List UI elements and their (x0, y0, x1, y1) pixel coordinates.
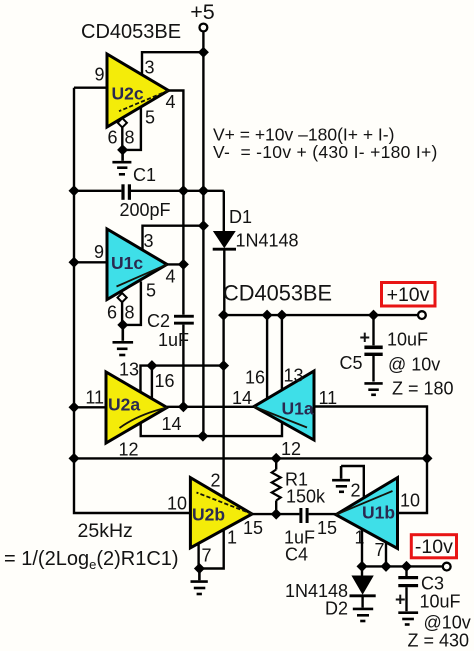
wire x223 rail down to U2b pin2 (222, 315, 224, 497)
junction D1 +10v rail (218, 310, 229, 321)
svg-text:25kHz: 25kHz (78, 520, 133, 542)
svg-text:U1b: U1b (362, 503, 395, 523)
U2c pin labels (94, 58, 175, 148)
svg-text:+: + (395, 590, 406, 610)
svg-text:12: 12 (281, 439, 301, 459)
svg-text:14: 14 (162, 414, 182, 434)
junction at +5 node (198, 47, 209, 58)
wire left rail (74, 88, 190, 513)
junction y458 x427 (422, 453, 433, 464)
ground flag U1b pin2 (332, 466, 350, 492)
svg-text:+5: +5 (190, 0, 215, 24)
svg-text:14: 14 (232, 388, 252, 408)
terminal circle +10v (418, 311, 426, 319)
wire +5 rail down to pin12 wire (202, 52, 204, 436)
svg-text:U2a: U2a (108, 395, 140, 415)
ground below C3 (398, 613, 418, 625)
wire x427 down to U1b pin10 (398, 458, 428, 513)
svg-text:7: 7 (202, 546, 212, 566)
junction pins 5-6-8 U1c (117, 319, 128, 330)
svg-text:CD4053BE: CD4053BE (223, 281, 332, 306)
junction pins 5-6-8 U2c (117, 144, 128, 155)
wire U2c pin5 to ground node (123, 107, 141, 150)
wire node 14 U2a to U1a (167, 406, 254, 408)
analog switch U2a (106, 372, 167, 443)
wire -10v rail (362, 565, 443, 567)
svg-text:D1: D1 (229, 207, 252, 227)
wire U2c pin6 pin8 down (121, 127, 123, 149)
svg-text:1: 1 (227, 528, 237, 548)
junction y458 left rail (69, 453, 80, 464)
svg-text:V- = -10v + (430 I- +180 I+): V- = -10v + (430 I- +180 I+) (213, 142, 438, 162)
svg-text:10uF: 10uF (387, 330, 428, 350)
wire U1a pin16 to +10v rail (266, 315, 268, 399)
svg-text:5: 5 (145, 108, 155, 128)
analog switch U1b (336, 478, 398, 549)
U1a pin labels (232, 366, 337, 460)
junction C1 x183 rail (178, 185, 189, 196)
capacitor C1 (74, 165, 224, 220)
svg-text:11: 11 (319, 388, 338, 408)
svg-text:7: 7 (375, 540, 385, 560)
svg-text:9: 9 (94, 65, 104, 85)
wire U2a pin16 stub (151, 366, 153, 399)
wire U1a pin13 to +10v rail (281, 315, 283, 390)
switch break diamond U2c (118, 118, 127, 127)
wire U2c output down (169, 91, 184, 315)
svg-text:15: 15 (317, 518, 337, 538)
junction R1 bottom (271, 509, 282, 520)
svg-text:CD4053BE: CD4053BE (81, 21, 181, 43)
equations V+ V- (213, 125, 438, 163)
svg-text:12: 12 (119, 440, 139, 460)
svg-text:+10v: +10v (387, 284, 430, 306)
junction U1c pin9 left rail (69, 257, 80, 268)
U1b pin labels (317, 481, 420, 561)
wire U1b pin2 to ground flag (341, 466, 364, 498)
wire U1c pin5 to ground node (123, 281, 141, 325)
svg-text:11: 11 (85, 388, 104, 408)
ground below U2c (112, 150, 131, 174)
capacitor C3 (395, 566, 471, 650)
wire U2a pin13 (141, 366, 224, 393)
junction R1 top (271, 453, 282, 464)
svg-text:13: 13 (119, 360, 139, 380)
svg-text:C5: C5 (340, 353, 363, 373)
svg-text:U2c: U2c (112, 84, 144, 104)
svg-text:Z = 430: Z = 430 (408, 631, 470, 651)
capacitor C2 (147, 311, 194, 407)
wire U1b pin7 stub (385, 543, 387, 567)
junction pin13 rail (276, 310, 287, 321)
U2b pin labels (167, 471, 263, 566)
U1c pin labels (94, 231, 176, 323)
svg-text:3: 3 (144, 231, 154, 251)
wire +10v rail (224, 314, 418, 316)
node +10v output terminal box (382, 283, 436, 307)
junction C1 x203 rail (198, 185, 209, 196)
wire U1c pin6 pin8 down (121, 302, 123, 325)
wire U2a pin12 to U1a pin12 (141, 422, 282, 436)
svg-text:+: + (360, 328, 371, 348)
svg-text:3: 3 (145, 58, 155, 78)
svg-text:Z = 180: Z = 180 (392, 379, 454, 399)
diode D2 1N4148 (285, 576, 376, 619)
wire U1b pin1 down through -10v rail (361, 529, 363, 576)
ground below U1c (113, 325, 134, 355)
svg-text:1N4148: 1N4148 (236, 231, 299, 251)
resistor R1 150k (272, 458, 326, 514)
svg-text:C3: C3 (421, 574, 444, 594)
svg-text:8: 8 (125, 303, 135, 323)
svg-text:C1: C1 (133, 165, 156, 185)
svg-text:2: 2 (351, 481, 361, 501)
svg-text:U2b: U2b (192, 505, 225, 525)
svg-text:10: 10 (400, 491, 420, 511)
analog switch U1c (107, 229, 167, 300)
svg-text:4: 4 (166, 92, 176, 112)
svg-text:2: 2 (211, 471, 221, 491)
switch break diamond U1c (118, 293, 127, 302)
svg-text:150k: 150k (286, 487, 326, 507)
svg-text:13: 13 (284, 366, 304, 386)
wire U2a pin11 (74, 406, 106, 408)
svg-text:200pF: 200pF (120, 200, 171, 220)
svg-text:9: 9 (94, 242, 104, 262)
svg-text:4: 4 (166, 267, 176, 287)
junction pin3 wire x203 rail (198, 220, 209, 231)
node +5 supply terminal (190, 0, 215, 52)
junction pin12 wire x203 rail (197, 431, 208, 442)
svg-text:15: 15 (243, 518, 263, 538)
svg-text:-10v: -10v (415, 536, 453, 558)
svg-text:16: 16 (155, 371, 175, 391)
svg-text:@10v: @10v (424, 613, 471, 633)
svg-text:@ 10v: @ 10v (388, 355, 440, 375)
wire U2b pin1 pin7 (199, 530, 223, 569)
svg-text:6: 6 (107, 128, 117, 148)
junction pin16 stub (146, 360, 157, 371)
node -10v output terminal box (411, 535, 456, 558)
junction pin1 rail (357, 561, 368, 572)
junction node14 x183 rail (178, 401, 189, 412)
wire U2b pin7 stub (197, 543, 199, 568)
svg-text:1uF: 1uF (158, 330, 189, 350)
wire U1c pin3 (143, 226, 204, 250)
svg-text:C4: C4 (285, 545, 308, 565)
wire U1c pin9 (74, 261, 107, 263)
analog switch U2c (107, 54, 169, 127)
svg-text:U1c: U1c (111, 253, 143, 273)
wire U2b output to C4 (252, 513, 299, 515)
wire U1c output (167, 263, 183, 265)
analog switch U1a (254, 371, 314, 440)
svg-text:D2: D2 (325, 599, 348, 619)
U2a pin labels (85, 360, 181, 460)
svg-text:C2: C2 (147, 311, 170, 331)
svg-text:10uF: 10uF (420, 592, 461, 612)
junction pin13 wire x223 rail (218, 360, 229, 371)
ground below D2 (353, 609, 373, 621)
capacitor C5 (340, 315, 454, 398)
wire U2c pin3 to +5 node (142, 52, 203, 75)
junction pin16 rail (262, 310, 273, 321)
analog switch U2b (190, 478, 252, 548)
junction pin11 left rail (69, 402, 80, 413)
wire U2c pin9 to left rail (74, 86, 107, 88)
wire U1a pin11 right and down (314, 407, 427, 459)
junction U2b pin7 (194, 563, 205, 574)
wire oscillator node y458 (74, 457, 427, 459)
diode D1 1N4148 (213, 191, 299, 315)
junction C1 left rail (69, 185, 80, 196)
svg-text:U1a: U1a (282, 399, 314, 419)
junction pin7 rail (381, 561, 392, 572)
svg-text:16: 16 (245, 368, 265, 388)
svg-text:10: 10 (167, 494, 187, 514)
svg-text:5: 5 (146, 281, 156, 301)
ground below C5 (364, 383, 382, 394)
svg-text:6: 6 (107, 303, 117, 323)
svg-text:8: 8 (125, 128, 135, 148)
junction C3 rail (401, 561, 412, 572)
ground below U2b (191, 569, 208, 595)
junction C5 +10v rail (368, 310, 379, 321)
capacitor C4 (284, 508, 336, 565)
terminal circle -10v (443, 563, 451, 571)
junction U1c output x183 rail (178, 259, 189, 270)
